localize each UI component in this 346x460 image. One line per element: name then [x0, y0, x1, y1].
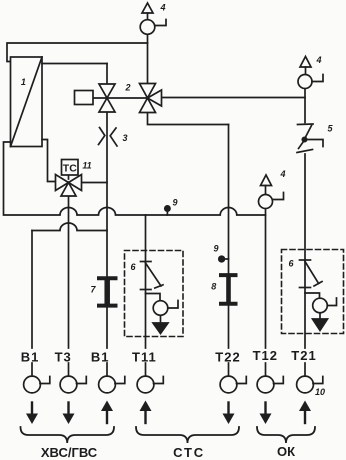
svg-text:В1: В1: [91, 350, 110, 365]
svg-text:9: 9: [172, 198, 177, 208]
svg-text:ТС: ТС: [63, 163, 77, 175]
svg-text:10: 10: [315, 387, 325, 397]
svg-text:СТС: СТС: [173, 445, 205, 460]
svg-text:ХВС/ГВС: ХВС/ГВС: [41, 445, 98, 460]
svg-text:6: 6: [288, 259, 294, 269]
svg-text:4: 4: [315, 55, 321, 65]
svg-text:1: 1: [21, 77, 26, 87]
svg-text:9: 9: [213, 244, 218, 254]
svg-text:7: 7: [90, 285, 96, 295]
svg-text:4: 4: [159, 3, 165, 13]
svg-text:Т21: Т21: [291, 348, 316, 363]
svg-text:Т22: Т22: [215, 350, 240, 365]
svg-text:Т3: Т3: [55, 350, 72, 365]
svg-text:11: 11: [82, 161, 91, 171]
svg-text:ОК: ОК: [277, 444, 295, 459]
svg-text:2: 2: [124, 83, 130, 93]
svg-text:3: 3: [122, 133, 127, 143]
svg-text:В1: В1: [21, 350, 40, 365]
svg-text:Т11: Т11: [132, 350, 157, 365]
svg-text:6: 6: [130, 262, 136, 272]
svg-text:4: 4: [279, 169, 285, 179]
svg-text:5: 5: [327, 124, 333, 134]
svg-text:Т12: Т12: [253, 348, 278, 363]
svg-text:8: 8: [211, 282, 216, 292]
